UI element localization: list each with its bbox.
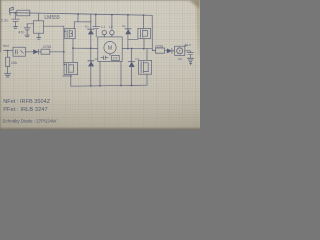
wire node A down to Q3 — [72, 48, 74, 62]
terminal circle L1 — [102, 30, 106, 34]
svg-text:Lo: Lo — [187, 43, 191, 47]
diode column D2 rail to node B — [127, 15, 129, 49]
svg-text:470Ω: 470Ω — [43, 45, 52, 49]
indicator chain: wire from rail drop — [152, 50, 155, 52]
wire bar to Q1 — [73, 22, 75, 29]
top V+ rail — [10, 13, 152, 16]
ground (R2) — [5, 74, 11, 77]
svg-text:2.2u: 2.2u — [1, 19, 8, 23]
diode D2 — [125, 28, 131, 30]
diode column left: rail to gnd — [90, 14, 92, 86]
transistor Q2 PFET top-right — [143, 15, 145, 28]
motor M1 — [104, 42, 116, 54]
ground (chain) — [187, 58, 193, 61]
source bar Q3 — [63, 75, 72, 77]
paper right edge / table background top-right — [189, 0, 200, 62]
capacitor C6 — [185, 51, 194, 58]
svg-text:NFet : IRFB 3504Z: NFet : IRFB 3504Z — [3, 99, 51, 105]
ground rail — [71, 85, 147, 86]
wire rail to L2 — [111, 15, 113, 30]
op-amp U1 LM555 box — [33, 21, 43, 33]
bar above Q1 — [74, 21, 91, 23]
svg-text:1:9: 1:9 — [112, 57, 117, 61]
wire rail drop to bar — [77, 14, 79, 22]
svg-text:ca: ca — [178, 57, 182, 61]
transistor Q1 PFET top-left — [65, 29, 75, 39]
paper left dark edge — [0, 0, 2, 52]
paper background — [0, 0, 200, 130]
node: junction dot C4 — [14, 12, 16, 14]
node input junction — [7, 50, 9, 52]
svg-text:Ind: Ind — [3, 43, 9, 48]
wire Q1 to node A — [72, 39, 74, 48]
svg-text:L1: L1 — [101, 25, 105, 29]
svg-text:D2: D2 — [122, 24, 126, 28]
wire IC left — [27, 24, 33, 28]
svg-text:LM555: LM555 — [44, 15, 60, 21]
svg-text:M: M — [108, 46, 112, 52]
ground (C4) — [13, 27, 17, 29]
diode D4 — [128, 60, 134, 62]
gate column wire — [64, 26, 66, 64]
buzzer B1 box — [175, 46, 185, 55]
wire motor box bottom-right to gnd — [120, 61, 122, 85]
ground (IC) — [37, 38, 41, 40]
diode column D4 node B to gnd — [131, 49, 133, 86]
svg-text:D1: D1 — [85, 25, 89, 29]
diode D3 — [88, 60, 94, 62]
supply flag +V — [10, 7, 14, 12]
transistor Q3 NFET bottom-left — [64, 62, 78, 74]
capacitor C4 to ground — [12, 13, 19, 27]
wire switch to diode — [25, 51, 33, 53]
node A wire (motor left) — [73, 47, 98, 49]
wire IC output right — [44, 25, 64, 27]
plus mark — [185, 44, 187, 46]
motor box — [98, 37, 122, 62]
resistor R1 (series, on rail) — [17, 10, 30, 16]
diode D1 — [88, 28, 94, 30]
capacitor C2 — [24, 28, 30, 35]
paper bottom shadow edge — [0, 126, 200, 130]
wire IC bottom pin — [38, 33, 40, 37]
LED D6 — [167, 48, 172, 53]
gear box 1:9 — [112, 55, 120, 60]
svg-text:PFet : IRLB 3247: PFet : IRLB 3247 — [3, 107, 48, 113]
resistor R4 220 — [156, 48, 165, 53]
transistor Q4 NFET bottom-right — [146, 49, 148, 61]
capacitor C5 rail to motor — [93, 15, 100, 37]
wire to gate column — [50, 51, 64, 53]
switch S1 box — [13, 47, 25, 56]
wire input — [4, 50, 14, 52]
svg-text:L2: L2 — [109, 25, 113, 29]
ground (C2) — [25, 35, 29, 37]
resistor R3 470 — [41, 49, 50, 54]
capacitor inside motor box — [101, 56, 108, 60]
svg-text:47n: 47n — [18, 30, 24, 34]
diode D5 — [33, 49, 38, 54]
svg-text:Schottky Diode : 27PS24W: Schottky Diode : 27PS24W — [2, 118, 57, 123]
svg-text:220Ω: 220Ω — [155, 44, 164, 48]
resistor R2 pulldown — [7, 51, 9, 58]
rail corner down to indicator chain — [151, 15, 153, 50]
node B wire (motor right) — [122, 47, 152, 49]
wire IC top to rail — [38, 13, 40, 21]
terminal circle L2 — [110, 30, 114, 34]
svg-text:10k: 10k — [11, 61, 17, 65]
wire motor box bottom-left to gnd — [99, 61, 101, 86]
